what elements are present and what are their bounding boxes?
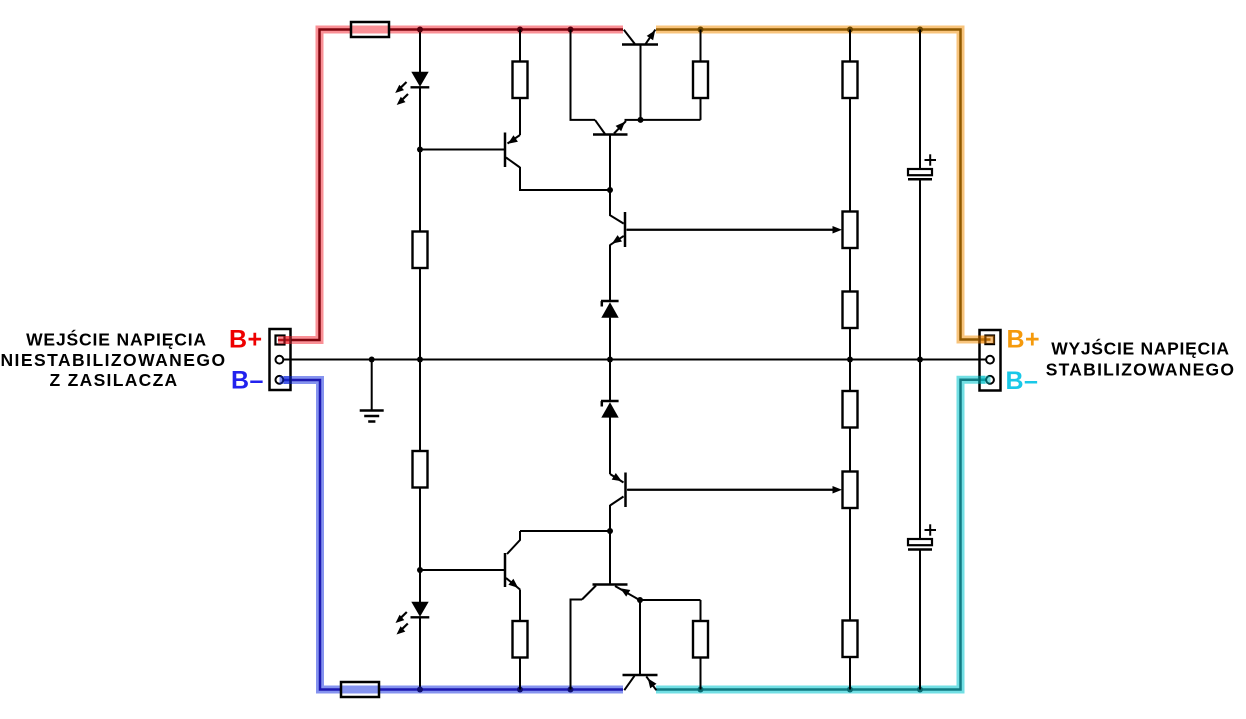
resistor R7 <box>693 621 708 658</box>
wire B+ input highlight band (red) <box>285 30 623 341</box>
wire middle 0V rail <box>283 359 986 361</box>
node x=850 on 0V rail <box>847 357 853 363</box>
wire D2 cathode to B- rail <box>419 617 421 689</box>
transistor Q6 (PNP error amplifier, bottom) <box>610 473 626 508</box>
resistor R4b <box>843 292 858 329</box>
wire B+ input (dark red) <box>278 30 623 341</box>
connector J1 (input, left) <box>270 329 291 390</box>
node ground / 0V rail <box>369 357 375 363</box>
svg-text:B+: B+ <box>1007 326 1041 354</box>
wire C1 to 0V rail <box>919 181 921 360</box>
node A (junction LED / base wire T1) <box>417 147 423 153</box>
label output text <box>1046 338 1236 380</box>
transistor Q5 (NPN error amplifier, top) <box>610 190 625 247</box>
node C1/C2 on 0V rail <box>917 357 923 363</box>
transistor T1 (PNP, top left) <box>505 98 520 168</box>
svg-text:B–: B– <box>1006 367 1039 395</box>
wire collector Q6 to node E <box>609 505 611 531</box>
wire node A to resistor R1 <box>419 150 421 232</box>
wire B+ output (dark orange) <box>656 30 991 340</box>
node orange rail x=700 <box>698 27 704 33</box>
wire base T1 to node A <box>420 149 505 151</box>
wire red rail to collector Q2 <box>571 30 596 120</box>
fuse F1 (top, in red B+ wire) <box>351 22 389 37</box>
wire 0V rail to resistor R8 <box>849 360 851 392</box>
wire red rail to resistor R2 <box>519 30 521 62</box>
potentiometer P1 <box>627 212 858 249</box>
resistor R8b <box>843 621 858 658</box>
transistor Q2 (NPN driver, top) <box>593 120 628 135</box>
wire 0V rail to resistor R5 <box>419 360 421 452</box>
wire D1 cathode to node A <box>419 87 421 149</box>
node blue rail x=420 <box>417 687 423 693</box>
transistor Q7 (PNP driver, bottom) <box>582 585 640 601</box>
node blue rail x=520 <box>517 687 523 693</box>
wire orange band over J2 pin <box>978 336 995 344</box>
node red rail x=520 <box>517 27 523 33</box>
wire R6 to blue rail <box>519 658 521 690</box>
node red rail x=420 <box>417 27 423 33</box>
resistor R4 <box>843 62 858 99</box>
capacitor C1 (electrolytic, top) <box>908 154 936 179</box>
ground symbol <box>360 360 384 422</box>
wire blue rail to collector Q7 <box>571 600 583 690</box>
wire B- input (dark blue) <box>284 380 624 690</box>
wire R1 to 0V rail <box>419 268 421 360</box>
node B (junction R5 / base wire T4) <box>417 567 423 573</box>
svg-text:B–: B– <box>231 367 264 395</box>
wire R7 to cyan rail <box>700 600 702 621</box>
wire B- output (dark cyan) <box>656 380 986 690</box>
wire collector T4 to node E <box>520 530 610 532</box>
node R1 / 0V rail <box>417 357 423 363</box>
resistor R6 <box>513 621 528 658</box>
node E (Q6 collector / T4 collector / Q7 base) <box>607 528 613 534</box>
resistor R2 <box>513 62 528 99</box>
zener diode Z1 (top) <box>601 301 619 318</box>
wire red band over J1 pin <box>278 336 292 344</box>
svg-text:WEJŚCIE NAPIĘCIA: WEJŚCIE NAPIĘCIA <box>26 328 207 349</box>
svg-text:WYJŚCIE NAPIĘCIA: WYJŚCIE NAPIĘCIA <box>1051 338 1229 359</box>
wire base Q6 to potentiometer P2 wiper <box>627 489 834 491</box>
resistor R3 <box>693 62 708 99</box>
wire emitter Q2 to node D <box>625 119 641 121</box>
wire B- input highlight band (blue) <box>284 380 623 690</box>
connector J2 (output, right) <box>980 330 1001 391</box>
node orange rail x=850 <box>847 27 853 33</box>
zener diode Z2 (bottom) <box>601 401 619 418</box>
wire collector T1 to node C <box>520 167 610 190</box>
node blue rail x=570.5 <box>568 687 574 693</box>
node red rail x=570.5 <box>568 27 574 33</box>
wire base Q8 to node F <box>639 600 641 675</box>
node orange rail x=920 <box>917 27 923 33</box>
wire base Q7 to node E <box>609 531 611 585</box>
wire LED column top (B+ rail to LED D1) <box>419 30 421 74</box>
capacitor C2 (electrolytic, bottom) <box>908 524 936 549</box>
svg-text:B+: B+ <box>229 326 263 354</box>
svg-text:Z ZASILACZA: Z ZASILACZA <box>49 370 178 390</box>
wire orange rail to R3 <box>700 30 702 62</box>
resistor R1 <box>413 232 428 269</box>
resistor R8 <box>843 391 858 428</box>
wire orange rail to resistor R4 <box>849 30 851 62</box>
wire node F to resistor R7 <box>640 599 701 601</box>
wire Z1 anode to 0V rail <box>609 318 611 360</box>
node cyan rail x=700 <box>698 687 704 693</box>
wire P2 to resistor R8b <box>849 508 851 621</box>
wire P1 to resistor R4b <box>849 248 851 292</box>
transistor Q8 (PNP series pass, bottom) <box>623 675 658 690</box>
potentiometer P2 <box>628 472 858 509</box>
transistor T4 (NPN, bottom left) <box>505 531 520 590</box>
wire orange rail to capacitor C1 <box>919 30 921 171</box>
wire R8b to cyan rail <box>849 657 851 690</box>
wire 0V rail to zener Z2 <box>609 360 611 402</box>
svg-text:STABILIZOWANEGO: STABILIZOWANEGO <box>1046 359 1236 379</box>
wire base T4 to node B <box>420 569 505 571</box>
node C (T1 collector / Q2 base / Q5 collector) <box>607 187 613 193</box>
label input text <box>0 328 226 390</box>
wire emitter T4 to resistor R6 <box>519 590 521 622</box>
wire R4 to potentiometer P1 <box>849 98 851 212</box>
wire R8 to potentiometer P2 <box>849 428 851 472</box>
fuse F2 (bottom, in blue B- wire) <box>341 682 379 697</box>
wire emitter Q5 to zener Z1 <box>609 245 611 302</box>
wire node D to resistor R3 <box>641 119 701 121</box>
wire R3 to node D wire <box>700 98 702 120</box>
wire cyan band over J2 pin <box>978 376 991 384</box>
wire 0V rail to capacitor C2 <box>919 360 921 541</box>
node D (Q2 emitter / Q3 base / R3) <box>638 117 644 123</box>
node cyan rail x=920 <box>917 687 923 693</box>
LED D1 (top) <box>395 72 429 105</box>
wire base Q2 to node C <box>609 135 611 191</box>
resistor R5 <box>413 451 428 488</box>
wire blue band over J1 pin <box>280 376 293 384</box>
svg-text:NIESTABILIZOWANEGO: NIESTABILIZOWANEGO <box>0 350 226 370</box>
wire Z2 anode to emitter Q6 <box>609 417 611 474</box>
transistor Q3 (NPN series pass, top) <box>622 30 658 45</box>
wire R4b to 0V rail <box>849 328 851 360</box>
wire node B to LED D2 <box>419 570 421 603</box>
node F (Q7 emitter / Q8 base / R7) <box>637 597 643 603</box>
LED D2 (bottom) <box>396 602 430 635</box>
wire B+ output highlight band (orange) <box>656 30 985 340</box>
wire base Q3 to node D <box>640 45 642 120</box>
node Z1/Z2 on 0V rail <box>607 357 613 363</box>
wire B- output highlight band (cyan) <box>656 380 985 690</box>
node cyan rail x=850 <box>847 687 853 693</box>
wire R5 to node B <box>419 488 421 571</box>
wire base Q5 to potentiometer P1 wiper <box>627 229 835 231</box>
wire C2 to cyan rail <box>919 551 921 690</box>
